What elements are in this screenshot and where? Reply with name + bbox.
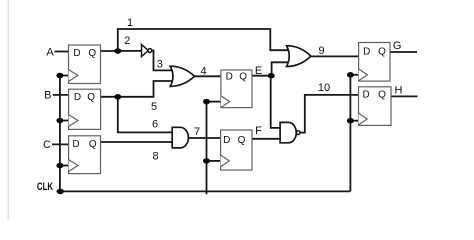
wire: clock branch to U4 clk xyxy=(207,101,222,103)
svg-text:D: D xyxy=(72,139,79,150)
svg-text:Q: Q xyxy=(238,135,246,146)
junction dot: clk left / U1 xyxy=(56,73,63,79)
svg-text:D: D xyxy=(226,72,233,83)
wire: U6.Q output G xyxy=(390,51,417,53)
junction dot: U2.Q node xyxy=(114,94,121,100)
svg-text:Q: Q xyxy=(87,92,95,103)
svg-text:5: 5 xyxy=(151,101,157,113)
wire 10: NAND1 output up and across to U7.D xyxy=(300,95,359,133)
wire: clock branch to U2 clk xyxy=(60,120,69,122)
wire 1: junction up and across to OR2 upper input xyxy=(118,29,291,51)
wire: U4.Q to node E junction xyxy=(252,75,271,77)
svg-text:E: E xyxy=(255,65,262,77)
wire: input C to U3.D xyxy=(52,143,69,145)
junction dot: CLK bus left xyxy=(57,189,64,195)
svg-text:F: F xyxy=(255,125,262,137)
wire: clock branch to U7 clk xyxy=(350,120,358,122)
svg-text:G: G xyxy=(393,40,402,52)
svg-text:4: 4 xyxy=(200,65,206,77)
flip-flop U1 (input A) xyxy=(69,45,101,84)
OR gate OR2 (wire 1, E -> 9) xyxy=(287,46,311,67)
junction dot: clk left / U3 xyxy=(56,163,63,169)
wire F: U5.Q to NAND1 lower input xyxy=(252,138,283,140)
flip-flop U4 (node E) xyxy=(221,70,252,108)
wire: clock branch to U3 clk xyxy=(60,165,69,167)
wire 8: U3.Q to AND1 lower input xyxy=(100,141,174,143)
wire: input A to U1.D xyxy=(55,51,70,53)
svg-text:CLK: CLK xyxy=(37,181,53,193)
svg-text:10: 10 xyxy=(318,82,330,94)
wire: clock riser middle (x=206.5) xyxy=(206,102,208,195)
wire 9: OR2 output to U6.D xyxy=(311,55,359,57)
OR gate OR1 (wires 3,5 -> 4) xyxy=(170,66,194,86)
svg-text:D: D xyxy=(223,135,230,146)
wire: input B to U2.D xyxy=(53,94,69,96)
svg-text:Q: Q xyxy=(89,139,97,150)
junction dot: clk mid / U5 xyxy=(203,158,210,164)
svg-text:9: 9 xyxy=(318,45,324,57)
junction dot: clk mid / U4 xyxy=(203,99,210,105)
flip-flop U5 (node F) xyxy=(221,130,252,170)
wire 7: AND1 output to U5.D xyxy=(188,137,221,139)
svg-text:D: D xyxy=(73,48,80,59)
svg-text:H: H xyxy=(395,85,403,97)
wire: node E up to OR2 lower input xyxy=(272,62,291,75)
wire: clock branch to U5 clk xyxy=(207,160,221,162)
flip-flop U6 (output G) xyxy=(359,43,390,82)
junction dot: clk right / U6 xyxy=(347,72,354,78)
svg-text:7: 7 xyxy=(194,126,200,138)
wire 5: junction up into OR1 lower input xyxy=(118,81,175,97)
wire 4: OR1 output to U4.D xyxy=(194,75,221,77)
NAND gate NAND1 (E,F -> 10) xyxy=(280,122,300,142)
svg-text:A: A xyxy=(46,46,54,58)
wire: clock riser right (x=350.4) xyxy=(349,75,351,192)
svg-text:1: 1 xyxy=(127,17,133,29)
wire: CLK bus horizontal xyxy=(57,190,351,192)
junction dot: clk left / U2 xyxy=(56,118,63,124)
svg-text:D: D xyxy=(363,46,370,57)
svg-text:2: 2 xyxy=(124,35,130,47)
wire 3: inverter output down to OR1 upper input xyxy=(151,51,175,71)
junction dot: node E xyxy=(268,73,275,79)
svg-text:Q: Q xyxy=(88,48,96,59)
flip-flop U3 (input C) xyxy=(69,136,101,174)
wire: U7.Q output H xyxy=(391,95,418,97)
inverter (NOT gate) on wire 2 xyxy=(142,44,152,56)
svg-text:D: D xyxy=(362,89,369,100)
svg-text:D: D xyxy=(74,92,81,103)
svg-text:Q: Q xyxy=(378,89,386,100)
wire 2: junction to inverter input xyxy=(118,50,142,52)
svg-text:C: C xyxy=(43,139,51,151)
wire: clock branch to U6 clk xyxy=(350,74,359,76)
AND gate AND1 (wires 6,8 -> 7) xyxy=(172,127,188,148)
wire 6: junction down into AND1 upper input xyxy=(118,97,175,133)
svg-text:8: 8 xyxy=(152,150,158,162)
svg-text:Q: Q xyxy=(378,46,386,57)
svg-text:6: 6 xyxy=(152,118,158,130)
wire: node E down to NAND1 upper input xyxy=(271,76,283,128)
flip-flop U2 (input B) xyxy=(69,89,101,129)
wire: clock riser left (x=59.9) xyxy=(59,76,61,192)
flip-flop U7 (output H) xyxy=(359,87,392,126)
svg-text:3: 3 xyxy=(157,58,163,70)
svg-text:B: B xyxy=(44,90,51,102)
wire: U1.Q to node 2 junction xyxy=(101,50,118,52)
wire: clock branch to U1 clk xyxy=(60,75,69,77)
wire: U2.Q to node 5 junction xyxy=(101,96,118,98)
svg-text:Q: Q xyxy=(239,72,247,83)
junction dot: clk right / U7 xyxy=(347,118,354,124)
junction dot: U1.Q node xyxy=(114,48,121,54)
